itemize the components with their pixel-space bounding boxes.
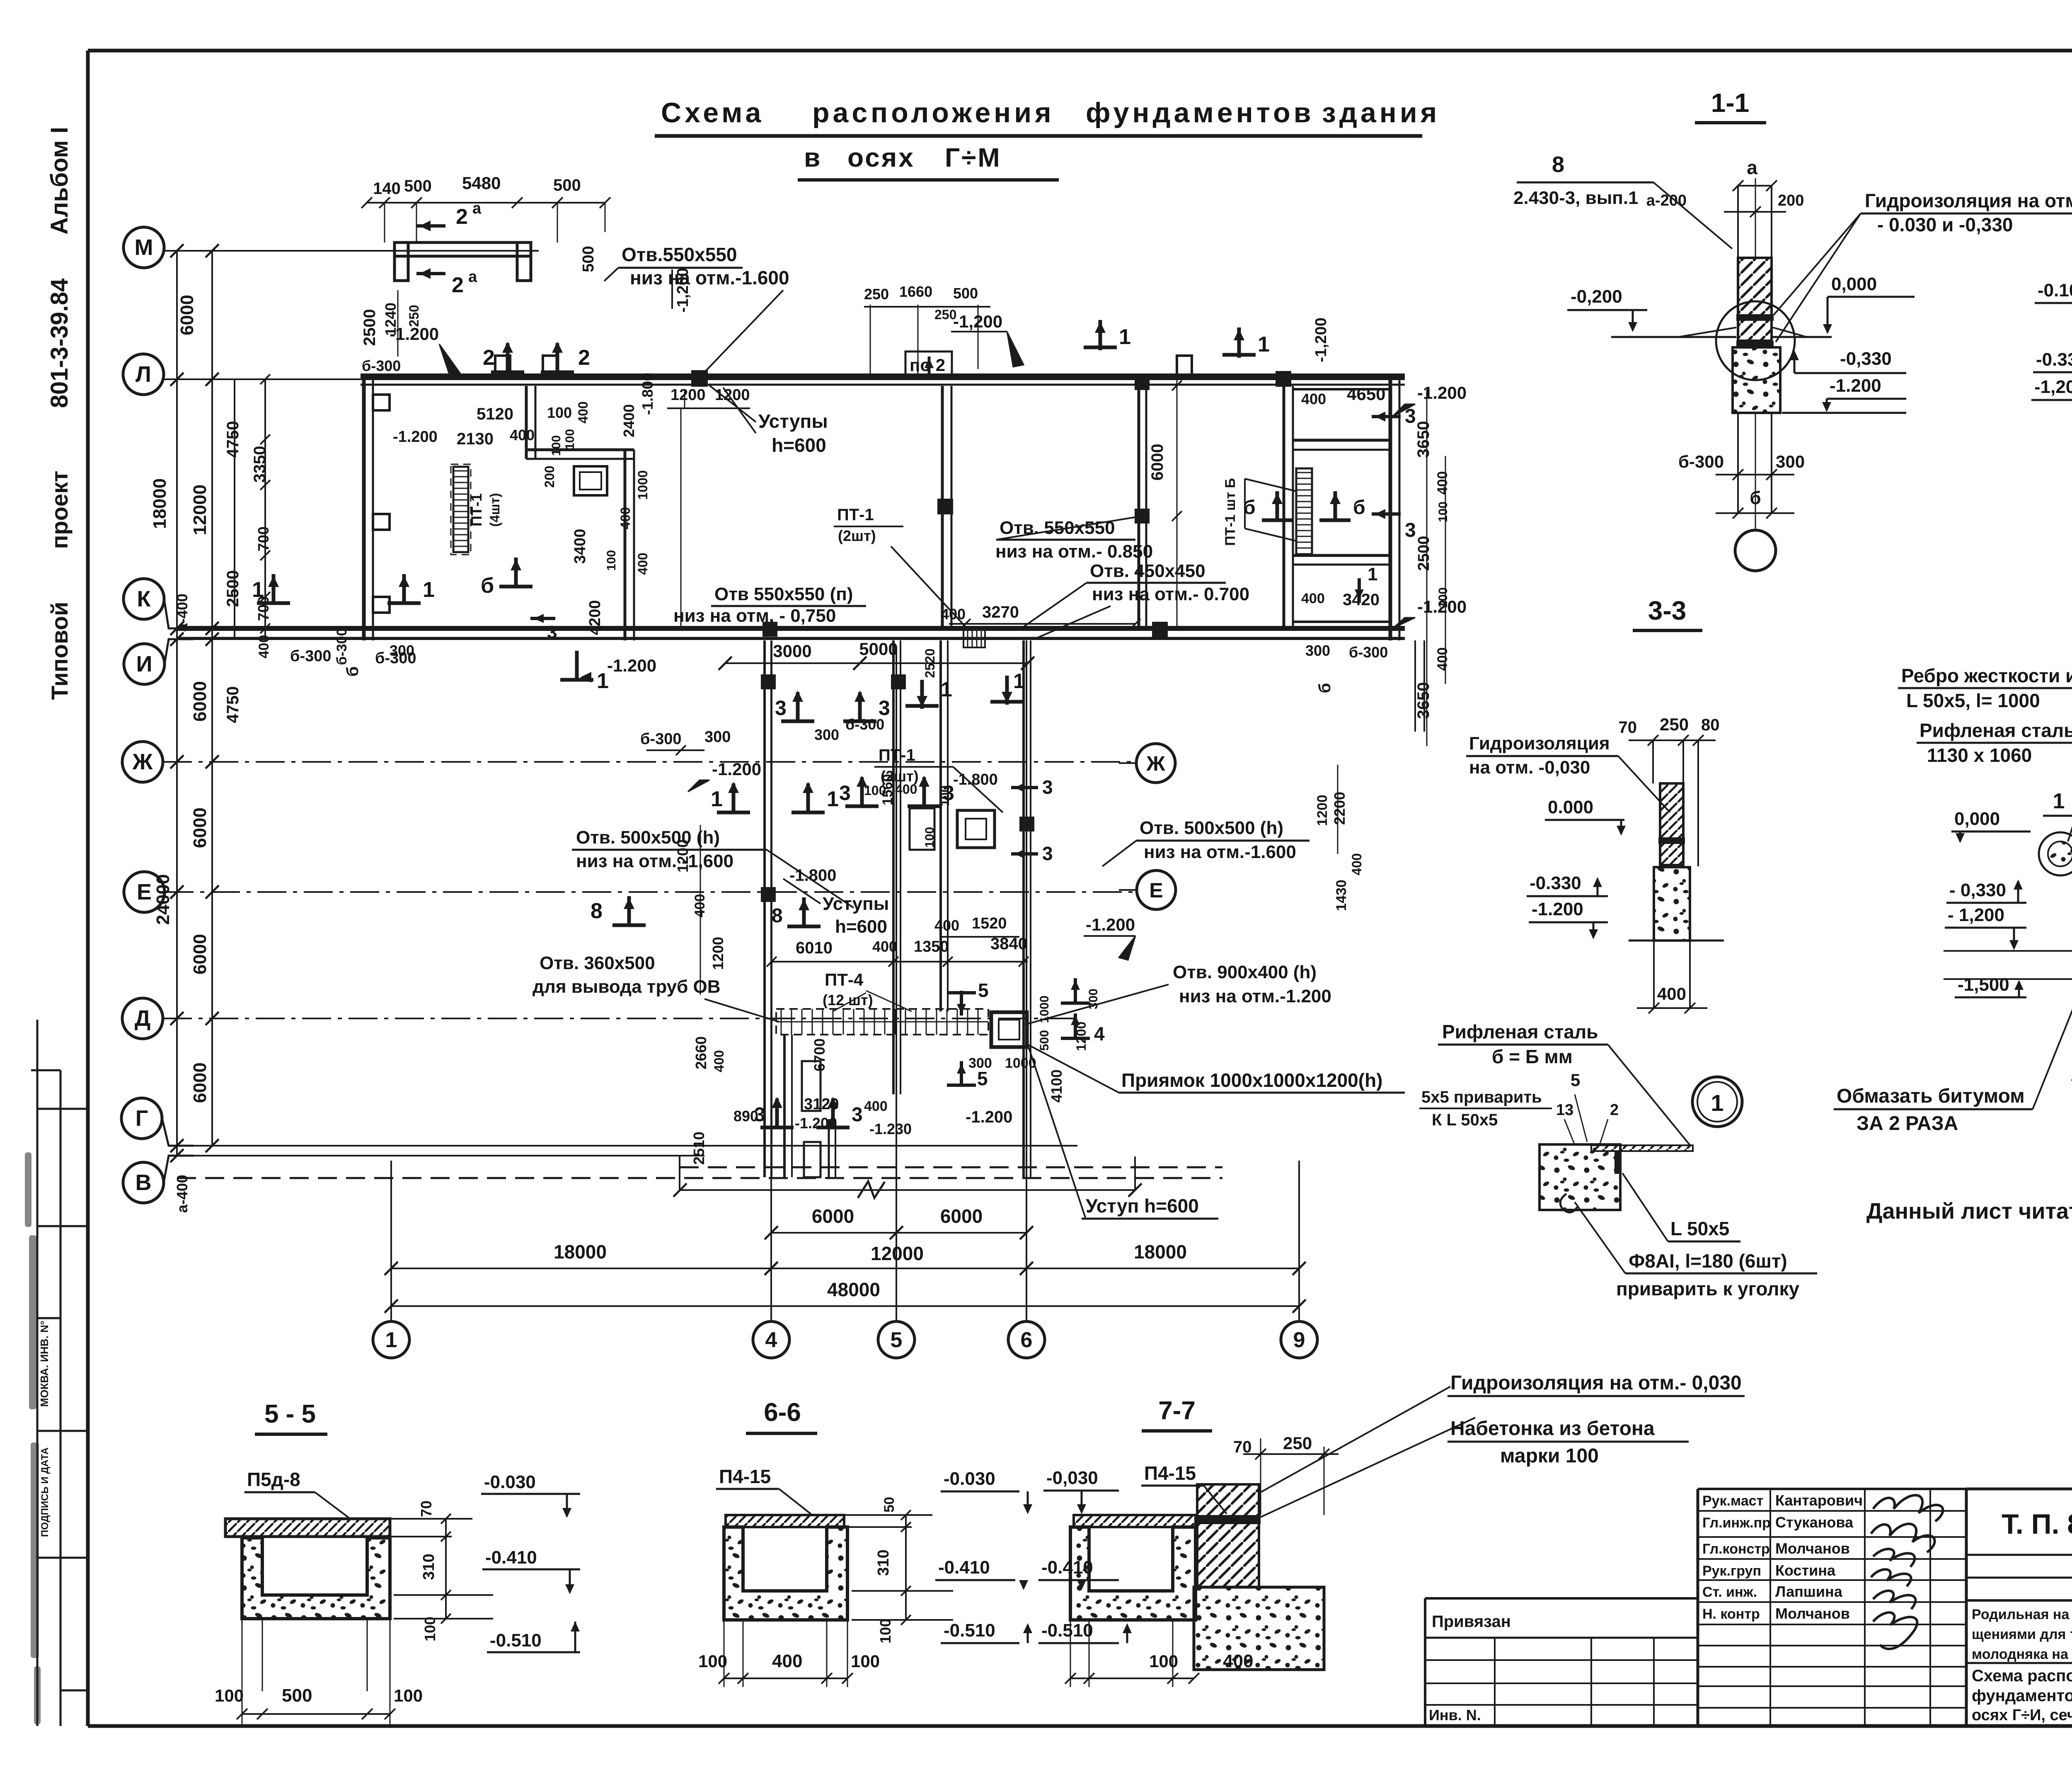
svg-text:3000: 3000 [773, 641, 811, 661]
svg-text:молодняка на 220 голов: молодняка на 220 голов [1972, 1646, 2072, 1662]
svg-text:h=600: h=600 [835, 916, 887, 937]
svg-text:100: 100 [1436, 502, 1450, 522]
svg-text:б: б [1353, 497, 1365, 519]
mid small rooms at x2300 [957, 810, 995, 848]
svg-text:Гидроизоляция на отм.: Гидроизоляция на отм. [1865, 190, 2072, 211]
axis В circle [123, 1162, 164, 1203]
section marks 3 bottom [760, 1126, 794, 1130]
wall axis K [177, 626, 1405, 631]
pilasters above L wall [495, 356, 510, 376]
svg-text:300: 300 [814, 726, 839, 743]
svg-text:300: 300 [1305, 642, 1330, 659]
svg-text:2.430-3, вып.1: 2.430-3, вып.1 [1513, 188, 1639, 208]
svg-text:1: 1 [385, 1328, 397, 1352]
dim row 6010 400 1350 3840 [772, 961, 1028, 962]
sec7 gidro leader lines [1261, 1387, 1450, 1492]
svg-text:ЗА 2 РАЗА: ЗА 2 РАЗА [1857, 1113, 1958, 1135]
svg-text:осях Г÷И, сечения 1-1 ÷ 7-7: осях Г÷И, сечения 1-1 ÷ 7-7 [1972, 1707, 2072, 1724]
svg-text:Ст. инж.: Ст. инж. [1702, 1584, 1757, 1600]
svg-text:1: 1 [1258, 332, 1270, 356]
column circles 1 4 5 6 9 [373, 1321, 409, 1358]
svg-text:1: 1 [1119, 325, 1131, 349]
svg-text:3: 3 [1405, 519, 1416, 541]
svg-text:Костина: Костина [1775, 1562, 1836, 1579]
svg-text:9: 9 [1293, 1328, 1305, 1352]
bottom partial dim line with break [680, 1189, 1135, 1191]
svg-text:Отв. 360x500: Отв. 360x500 [540, 953, 655, 973]
svg-text:низ на отм.-1.600: низ на отм.-1.600 [1144, 842, 1296, 862]
svg-text:3-3: 3-3 [1648, 596, 1687, 625]
mark 8 up [612, 924, 646, 927]
svg-text:МОКВА. ИНВ. N°: МОКВА. ИНВ. N° [38, 1321, 51, 1407]
sec6 right dim chain [905, 1515, 907, 1620]
svg-text:Уступы: Уступы [823, 894, 889, 914]
svg-text:3400: 3400 [571, 529, 589, 564]
svg-text:ПТ-4: ПТ-4 [825, 970, 864, 989]
svg-text:Рук.груп: Рук.груп [1702, 1563, 1761, 1579]
svg-text:3840: 3840 [990, 935, 1027, 953]
svg-text:100: 100 [605, 550, 618, 571]
svg-text:0,000: 0,000 [1954, 809, 2000, 829]
steel plate [1591, 1145, 1693, 1151]
sec5 right dim chain [445, 1519, 447, 1619]
wall axis I [177, 637, 1405, 639]
svg-text:а: а [468, 268, 477, 286]
svg-text:-0.030: -0.030 [484, 1472, 536, 1492]
svg-text:100: 100 [1149, 1651, 1178, 1671]
svg-text:Ж: Ж [132, 749, 153, 774]
svg-text:щениями для телят ремонтного: щениями для телят ремонтного [1972, 1627, 2072, 1642]
svg-text:П4-15: П4-15 [719, 1466, 771, 1487]
svg-text:Лапшина: Лапшина [1775, 1583, 1843, 1600]
svg-text:Типовой: Типовой [46, 602, 73, 700]
svg-text:100: 100 [549, 435, 563, 456]
junction squares on K wall [1152, 622, 1168, 638]
svg-text:-0,330: -0,330 [1840, 349, 1892, 369]
svg-text:фундаментов: фундаментов [1086, 97, 1314, 128]
svg-text:Обмазать битумом: Обмазать битумом [1837, 1085, 2025, 1107]
svg-text:Кантарович: Кантарович [1775, 1492, 1863, 1509]
right cluster section marks b [1262, 519, 1293, 522]
border frame [88, 49, 2072, 53]
section mark 1 up pair left [257, 601, 290, 605]
svg-text:5000: 5000 [859, 639, 898, 659]
svg-text:400: 400 [864, 1098, 888, 1114]
section mark 3 lower right [1372, 512, 1401, 516]
section marks 1 pair mid [717, 811, 750, 815]
svg-text:Рифленая сталь б=6мм: Рифленая сталь б=6мм [1920, 720, 2072, 741]
stair PT-1 4sht hatched strip [453, 467, 468, 552]
svg-text:Отв.550x550: Отв.550x550 [622, 244, 737, 265]
svg-text:3: 3 [1042, 843, 1053, 864]
svg-text:Отв. 500x500 (h): Отв. 500x500 (h) [1140, 818, 1283, 838]
svg-text:13: 13 [1556, 1101, 1573, 1119]
svg-text:3270: 3270 [982, 603, 1019, 621]
svg-text:-1.230: -1.230 [869, 1120, 912, 1137]
mark 5 lower [960, 1061, 963, 1086]
svg-text:6000: 6000 [812, 1205, 854, 1227]
svg-text:100: 100 [938, 785, 952, 806]
sec3 wall verticals [1652, 740, 1654, 783]
svg-text:И: И [136, 652, 152, 676]
svg-text:-0.510: -0.510 [944, 1620, 995, 1641]
section mark 3 small [530, 617, 555, 620]
left margin smudges [25, 1152, 31, 1227]
svg-text:100: 100 [864, 783, 886, 798]
svg-text:П4-15: П4-15 [1144, 1462, 1196, 1484]
sec1 axis circle [1735, 530, 1776, 571]
svg-text:500: 500 [282, 1685, 312, 1706]
angle profile [1615, 1151, 1620, 1174]
sec4 detail circle small [2039, 832, 2072, 875]
right outer wall [1389, 374, 1392, 640]
svg-text:-1.200: -1.200 [966, 1108, 1012, 1126]
svg-text:б-300: б-300 [362, 357, 401, 374]
svg-text:5480: 5480 [462, 173, 501, 193]
svg-text:100: 100 [851, 1651, 880, 1671]
svg-text:-0.410: -0.410 [1041, 1557, 1093, 1578]
interior wall x2281 L-K [941, 386, 944, 627]
svg-text:-0,200: -0,200 [1571, 286, 1622, 307]
svg-text:Ф8АI, l=180 (6шт): Ф8АI, l=180 (6шт) [1629, 1250, 1787, 1272]
svg-text:8: 8 [591, 899, 603, 923]
svg-text:400: 400 [635, 553, 650, 575]
svg-text:на отм. -0,030: на отм. -0,030 [1469, 757, 1590, 778]
svg-text:-1.200: -1.200 [712, 759, 761, 779]
svg-text:400: 400 [618, 507, 633, 529]
svg-text:б: б [1243, 497, 1256, 519]
dim 1200 1200 under L wall [667, 407, 750, 409]
svg-text:1200: 1200 [709, 937, 726, 970]
svg-text:-0.330: -0.330 [1530, 873, 1581, 893]
svg-text:500: 500 [404, 177, 432, 195]
svg-text:Е: Е [137, 880, 152, 904]
svg-text:1200: 1200 [1314, 795, 1330, 826]
svg-text:1: 1 [827, 787, 839, 811]
svg-text:Схема: Схема [661, 97, 764, 128]
svg-text:1520: 1520 [972, 915, 1007, 932]
svg-text:Рифленая сталь: Рифленая сталь [1442, 1021, 1598, 1042]
signatures squiggles [1873, 1495, 1943, 1521]
svg-text:1200: 1200 [670, 386, 706, 404]
section mark 2a lower [416, 272, 445, 275]
svg-text:6: 6 [1021, 1328, 1033, 1352]
svg-text:2660: 2660 [692, 1036, 709, 1069]
svg-text:4750: 4750 [224, 421, 242, 458]
bottom dimension line 48000 [391, 1305, 1299, 1307]
svg-text:Инв. N.: Инв. N. [1429, 1707, 1481, 1724]
svg-text:3: 3 [1042, 776, 1053, 798]
title block main cell [1966, 1488, 2072, 1491]
junction square on L at column 1700 [691, 370, 708, 387]
sec5 top slab [225, 1519, 390, 1537]
bottom dimension line 6000+6000 [771, 1232, 1026, 1234]
svg-text:Отв 550x550 (п): Отв 550x550 (п) [714, 584, 853, 604]
svg-text:б-300: б-300 [1349, 644, 1388, 661]
left dimension chain verticals [176, 251, 178, 1156]
left margin column [36, 1020, 39, 1726]
svg-text:3: 3 [852, 1104, 863, 1126]
svg-text:400: 400 [1301, 390, 1326, 407]
svg-text:2400: 2400 [620, 404, 637, 437]
svg-text:Привязан: Привязан [1432, 1612, 1511, 1631]
svg-text:К L 50х5: К L 50х5 [1432, 1111, 1498, 1129]
section mark 1 right of L [1099, 320, 1102, 350]
detail 1 circle [1692, 1077, 1742, 1127]
svg-text:-1.200: -1.200 [607, 656, 656, 675]
svg-text:400: 400 [1435, 471, 1450, 495]
svg-text:Отв. 450x450: Отв. 450x450 [1090, 561, 1205, 581]
svg-text:50: 50 [881, 1497, 897, 1513]
svg-text:б-300: б-300 [640, 730, 682, 748]
sec3 hatched wall [1660, 783, 1683, 865]
svg-text:70: 70 [418, 1501, 435, 1517]
svg-text:6000: 6000 [190, 934, 210, 975]
stair icon at K wall [963, 629, 985, 647]
svg-text:Ребро жесткости из: Ребро жесткости из [1901, 665, 2072, 686]
dim 3000 5000 line [725, 662, 1028, 664]
svg-text:б = Б мм: б = Б мм [1492, 1046, 1573, 1067]
svg-text:для вывода труб ОВ: для вывода труб ОВ [533, 977, 721, 997]
svg-text:2130: 2130 [457, 430, 494, 448]
po 2 marker [905, 352, 952, 377]
svg-text:3: 3 [775, 696, 787, 720]
stair triangle leader [1245, 479, 1296, 491]
right room lower [1293, 554, 1390, 557]
E axis circle right [1137, 870, 1176, 909]
svg-text:250: 250 [1660, 715, 1689, 734]
svg-text:1000: 1000 [1038, 996, 1051, 1023]
svg-text:здания: здания [1322, 97, 1440, 128]
svg-text:400: 400 [1301, 591, 1325, 606]
svg-text:400: 400 [576, 401, 591, 423]
svg-text:проект: проект [46, 471, 73, 549]
svg-text:б-300: б-300 [375, 650, 416, 667]
svg-text:Родильная на 25 коров с поме-: Родильная на 25 коров с поме- [1972, 1607, 2072, 1622]
svg-text:80: 80 [1701, 716, 1720, 734]
svg-text:1: 1 [1711, 1090, 1723, 1116]
detail concrete block [1539, 1144, 1620, 1210]
svg-text:3: 3 [547, 622, 557, 642]
right room upper [1293, 388, 1390, 390]
svg-text:расположения: расположения [812, 97, 1055, 128]
axis К line [164, 599, 194, 628]
svg-text:400: 400 [510, 427, 535, 444]
svg-text:низ на отм. - 0,750: низ на отм. - 0,750 [673, 606, 836, 626]
axis Е line [165, 891, 1135, 893]
svg-text:ПТ-1: ПТ-1 [837, 506, 874, 524]
svg-text:-0.330: -0.330 [2036, 349, 2072, 370]
verticals below K right [1414, 640, 1416, 732]
svg-text:2500: 2500 [224, 570, 242, 607]
svg-text:Отв. 500x500 (h): Отв. 500x500 (h) [576, 827, 720, 848]
svg-text:б: б [481, 574, 494, 598]
svg-text:осях: осях [847, 143, 915, 172]
svg-text:70: 70 [1619, 718, 1637, 737]
svg-text:500: 500 [953, 285, 978, 302]
svg-text:1350: 1350 [914, 938, 949, 955]
svg-text:500: 500 [1038, 1030, 1051, 1051]
svg-text:6000: 6000 [190, 681, 210, 722]
svg-text:1200: 1200 [1074, 1021, 1089, 1051]
mark 4 pair [1061, 1001, 1090, 1005]
svg-text:310: 310 [875, 1549, 892, 1576]
svg-text:(4шт): (4шт) [487, 493, 502, 526]
svg-text:100: 100 [563, 429, 577, 450]
svg-text:Д: Д [135, 1006, 150, 1031]
svg-text:-0,030: -0,030 [1046, 1468, 1098, 1488]
svg-text:Альбом I: Альбом I [46, 127, 73, 235]
svg-text:-1.800: -1.800 [639, 373, 656, 415]
axis М line [164, 250, 539, 252]
svg-text:801-3-39.84: 801-3-39.84 [46, 279, 73, 408]
svg-text:250: 250 [864, 286, 889, 303]
svg-text:300: 300 [1776, 452, 1805, 471]
svg-text:3350: 3350 [251, 446, 269, 483]
axis И circle [124, 644, 165, 684]
svg-text:а-400: а-400 [174, 1175, 191, 1213]
svg-text:400: 400 [1657, 984, 1686, 1004]
svg-text:Рук.маст: Рук.маст [1702, 1493, 1763, 1509]
svg-text:Отв. 900x400 (h): Отв. 900x400 (h) [1173, 962, 1317, 982]
svg-text:в: в [804, 143, 822, 172]
interior wall x2757 L-K [1138, 386, 1140, 627]
sec7 foundation block [1194, 1587, 1324, 1670]
svg-text:250: 250 [1283, 1433, 1312, 1453]
axis В line [164, 1156, 194, 1183]
svg-text:100: 100 [1436, 587, 1450, 608]
svg-text:приварить к уголку: приварить к уголку [1616, 1278, 1800, 1299]
svg-text:250: 250 [407, 305, 421, 327]
svg-text:100: 100 [923, 827, 937, 848]
svg-text:К: К [137, 587, 151, 611]
interior wall x3108 [1283, 386, 1285, 627]
stair PT-1 shtB hatched strip [1296, 468, 1312, 555]
bottom dimension line 18000/12000/18000 [391, 1268, 1299, 1269]
svg-text:-0.510: -0.510 [1041, 1620, 1093, 1641]
svg-text:б: б [1316, 683, 1334, 693]
svg-text:-1.200: -1.200 [1830, 376, 1881, 396]
svg-text:2520: 2520 [922, 648, 937, 678]
svg-text:1200: 1200 [674, 839, 691, 873]
left wall pilasters [373, 395, 390, 410]
sec1 foundation concrete [1733, 347, 1780, 413]
svg-text:Данный лист читать совместно с: Данный лист читать совместно с листом КЖ… [1866, 1199, 2072, 1224]
svg-text:400: 400 [1349, 853, 1364, 875]
svg-text:низ на отм.- 0.850: низ на отм.- 0.850 [995, 541, 1153, 562]
svg-text:Гл.констр: Гл.констр [1702, 1541, 1770, 1557]
anchor hook in concrete [1560, 1194, 1577, 1212]
column axis verticals [390, 1161, 392, 1321]
svg-text:фундаментов здания в: фундаментов здания в [1972, 1687, 2072, 1705]
svg-text:Г÷М: Г÷М [945, 143, 1002, 172]
svg-text:Е: Е [1149, 879, 1163, 902]
svg-text:6-6: 6-6 [764, 1398, 801, 1427]
sec1 ground lines [1611, 336, 1736, 338]
svg-text:300: 300 [704, 728, 731, 746]
svg-text:5: 5 [891, 1328, 903, 1352]
section marks 2 on L wall [491, 371, 524, 374]
svg-text:5: 5 [978, 979, 989, 1001]
svg-text:-0.410: -0.410 [485, 1547, 537, 1568]
svg-text:3650: 3650 [1414, 421, 1433, 458]
svg-text:Стуканова: Стуканова [1775, 1514, 1854, 1531]
svg-text:2: 2 [1610, 1101, 1619, 1119]
svg-text:6000: 6000 [1148, 444, 1167, 481]
svg-text:L 50х5: L 50х5 [1670, 1218, 1729, 1239]
lower mid wall stubs [783, 1035, 786, 1177]
svg-text:6000: 6000 [190, 1062, 210, 1103]
svg-text:700: 700 [255, 526, 272, 551]
svg-text:б: б [344, 667, 362, 677]
sec7 channel [1070, 1527, 1196, 1620]
mark 1 down right room [1358, 578, 1361, 601]
svg-text:6000: 6000 [940, 1205, 983, 1227]
svg-text:8: 8 [772, 905, 783, 927]
svg-text:низ на отм.-1.200: низ на отм.-1.200 [1179, 986, 1331, 1006]
svg-text:- 0,330: - 0,330 [1949, 880, 2006, 900]
wall axis L [361, 373, 1405, 378]
svg-text:400: 400 [1435, 647, 1450, 671]
svg-text:4100: 4100 [1048, 1069, 1065, 1103]
svg-text:Ж: Ж [1146, 752, 1165, 775]
svg-text:Л: Л [136, 362, 151, 387]
svg-text:4: 4 [765, 1328, 777, 1352]
svg-text:1: 1 [1368, 564, 1377, 584]
svg-text:1: 1 [2053, 789, 2065, 813]
dim line 140/500/5480/500 [367, 202, 605, 204]
svg-text:140: 140 [373, 179, 401, 198]
svg-text:1: 1 [1013, 669, 1025, 693]
svg-text:2500: 2500 [361, 309, 379, 346]
svg-text:6010: 6010 [796, 939, 833, 957]
Zh axis circle right [1136, 744, 1175, 783]
svg-text:5 - 5: 5 - 5 [264, 1400, 316, 1428]
wall pair axis 4 [763, 640, 766, 1177]
svg-text:(2шт): (2шт) [838, 527, 876, 544]
svg-text:3120: 3120 [804, 1096, 839, 1113]
svg-text:300: 300 [1087, 989, 1100, 1009]
svg-text:1-1: 1-1 [1711, 88, 1750, 118]
svg-text:1130 х 1060: 1130 х 1060 [1927, 744, 2032, 766]
svg-text:400: 400 [712, 1050, 726, 1072]
axis М circle [123, 227, 164, 268]
wall channel at axis M [395, 242, 531, 256]
svg-text:Отв. 550x550: Отв. 550x550 [1000, 518, 1115, 538]
section mark 1 right of L second [1237, 327, 1241, 358]
svg-text:890: 890 [733, 1108, 758, 1125]
svg-text:-0.510: -0.510 [490, 1630, 542, 1651]
svg-text:8: 8 [1552, 152, 1564, 177]
svg-text:400: 400 [895, 782, 917, 797]
wall pair axis 5 [892, 640, 895, 1094]
svg-text:18000: 18000 [1134, 1241, 1187, 1263]
svg-text:3: 3 [839, 781, 851, 805]
svg-text:1430: 1430 [1334, 880, 1349, 911]
svg-text:а-200: а-200 [1646, 192, 1687, 209]
B axis bottom dashed walls [680, 1166, 1222, 1169]
svg-text:12000: 12000 [871, 1243, 924, 1264]
svg-text:5х5 приварить: 5х5 приварить [1421, 1088, 1542, 1106]
svg-text:24000: 24000 [153, 874, 173, 925]
svg-text:б-300: б-300 [290, 647, 332, 665]
wall pair x2278 [939, 640, 942, 1011]
svg-text:Схема расположения: Схема расположения [1972, 1667, 2072, 1685]
svg-text:б: б [1750, 488, 1761, 508]
svg-text:П5д-8: П5д-8 [247, 1469, 300, 1490]
svg-text:4650: 4650 [1347, 384, 1385, 404]
svg-text:4750: 4750 [224, 686, 242, 723]
